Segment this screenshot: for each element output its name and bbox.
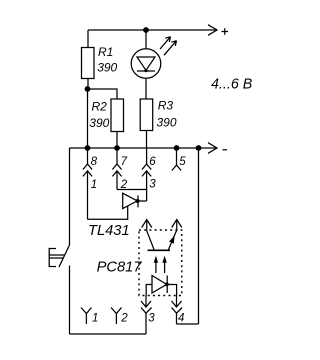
svg-text:390: 390 [157,116,177,130]
wire LED bottom lead [145,79,147,99]
PC817 pin3 plug arrow [141,296,151,308]
wire R3 bottom lead [146,131,148,149]
opto LED cathode bar [166,276,168,294]
socket contact pin 3 bottom [141,308,152,335]
light arrow 2 [164,262,166,274]
svg-text:390: 390 [89,116,109,130]
svg-text:TL431: TL431 [88,223,130,239]
light arrow 1 [155,262,157,274]
socket contact pin 6 [142,148,151,201]
label + [222,28,229,35]
svg-text:6: 6 [149,156,156,168]
shunt regulator TL431 triangle [123,193,138,208]
svg-text:4: 4 [178,313,184,325]
clip terminal bracket [49,249,64,267]
node dot pin5 on rail [174,145,180,151]
PC817 pin4 plug arrow [172,296,182,308]
+ terminal arrow [208,25,217,36]
LED emission arrow 2 [164,41,177,56]
phototransistor collector plug arrow [142,220,152,228]
wire jog to R2 [88,89,118,99]
svg-text:4...6 В: 4...6 В [211,77,253,93]
wire LED top lead [145,30,147,49]
wire R1 top lead [87,30,89,48]
wire pin4 to right branch [177,323,199,325]
socket contact pin 8 [83,148,92,219]
- terminal arrow [208,143,217,154]
wire bottom return [70,333,147,335]
node dot pin7 on rail [114,145,120,151]
svg-text:R3: R3 [158,99,174,113]
socket contact pin 7 [112,148,121,190]
svg-text:5: 5 [179,156,186,168]
transistor base bar [148,249,171,251]
wire positive rail [88,29,216,31]
wire right branch vertical [198,148,200,324]
wire left branch lower [69,266,71,335]
optocoupler U2 PC817 dashed body [139,230,182,296]
node junction dot LED column on + rail [143,27,149,33]
wire R2 bottom lead [116,132,118,149]
wire collector lead [147,220,154,250]
svg-text:3: 3 [149,178,156,190]
label - [223,149,228,151]
wire column pin8 down to rail [87,89,89,148]
wire negative rail [70,147,216,149]
socket contact pin 4 bottom [172,308,183,325]
opto LED triangle [152,276,167,294]
socket contact pin 1 bottom (empty fork) [81,308,92,325]
svg-text:PC817: PC817 [97,259,143,275]
wire opto LED cathode [167,285,176,296]
wire TL431 cathode to pin6 [138,200,147,202]
svg-text:R1: R1 [98,45,113,59]
svg-text:390: 390 [97,61,117,75]
resistor R1 [82,48,95,79]
node dot right branch on rail [196,145,202,151]
phototransistor emitter plug arrow [172,220,182,228]
node dot TL431 cathode [136,199,140,203]
node junction dot below R1 [85,86,91,92]
clip lever diagonal [59,245,70,267]
transistor emitter arrowhead [169,235,175,243]
LED triangle [137,57,155,70]
svg-text:1: 1 [92,312,98,324]
wire left branch upper [69,148,71,245]
wire TL431 anode from pin8 [88,206,128,219]
wire opto LED anode [146,285,152,296]
svg-text:1: 1 [91,179,97,191]
TL431 cathode bar [137,195,139,207]
LED emission arrow 1 [160,37,171,49]
svg-text:3: 3 [148,313,155,325]
svg-text:R2: R2 [92,99,108,113]
socket contact pin 2 bottom (empty fork) [111,308,122,325]
resistor R2 [111,99,124,132]
wire TL431 reference link [117,189,147,191]
node dot pin8 on rail [85,145,91,151]
svg-text:7: 7 [121,156,128,168]
wire R1 bottom lead [87,79,89,90]
LED cathode bar [137,70,155,72]
socket contact pin 5 [172,148,181,171]
node dot LED apex [144,69,147,72]
resistor R3 [140,99,153,131]
svg-text:8: 8 [91,156,98,168]
wire emitter lead [169,220,177,250]
svg-text:2: 2 [120,312,128,324]
LED VD1 circle [131,49,161,79]
node dot opto LED cathode [165,283,169,287]
